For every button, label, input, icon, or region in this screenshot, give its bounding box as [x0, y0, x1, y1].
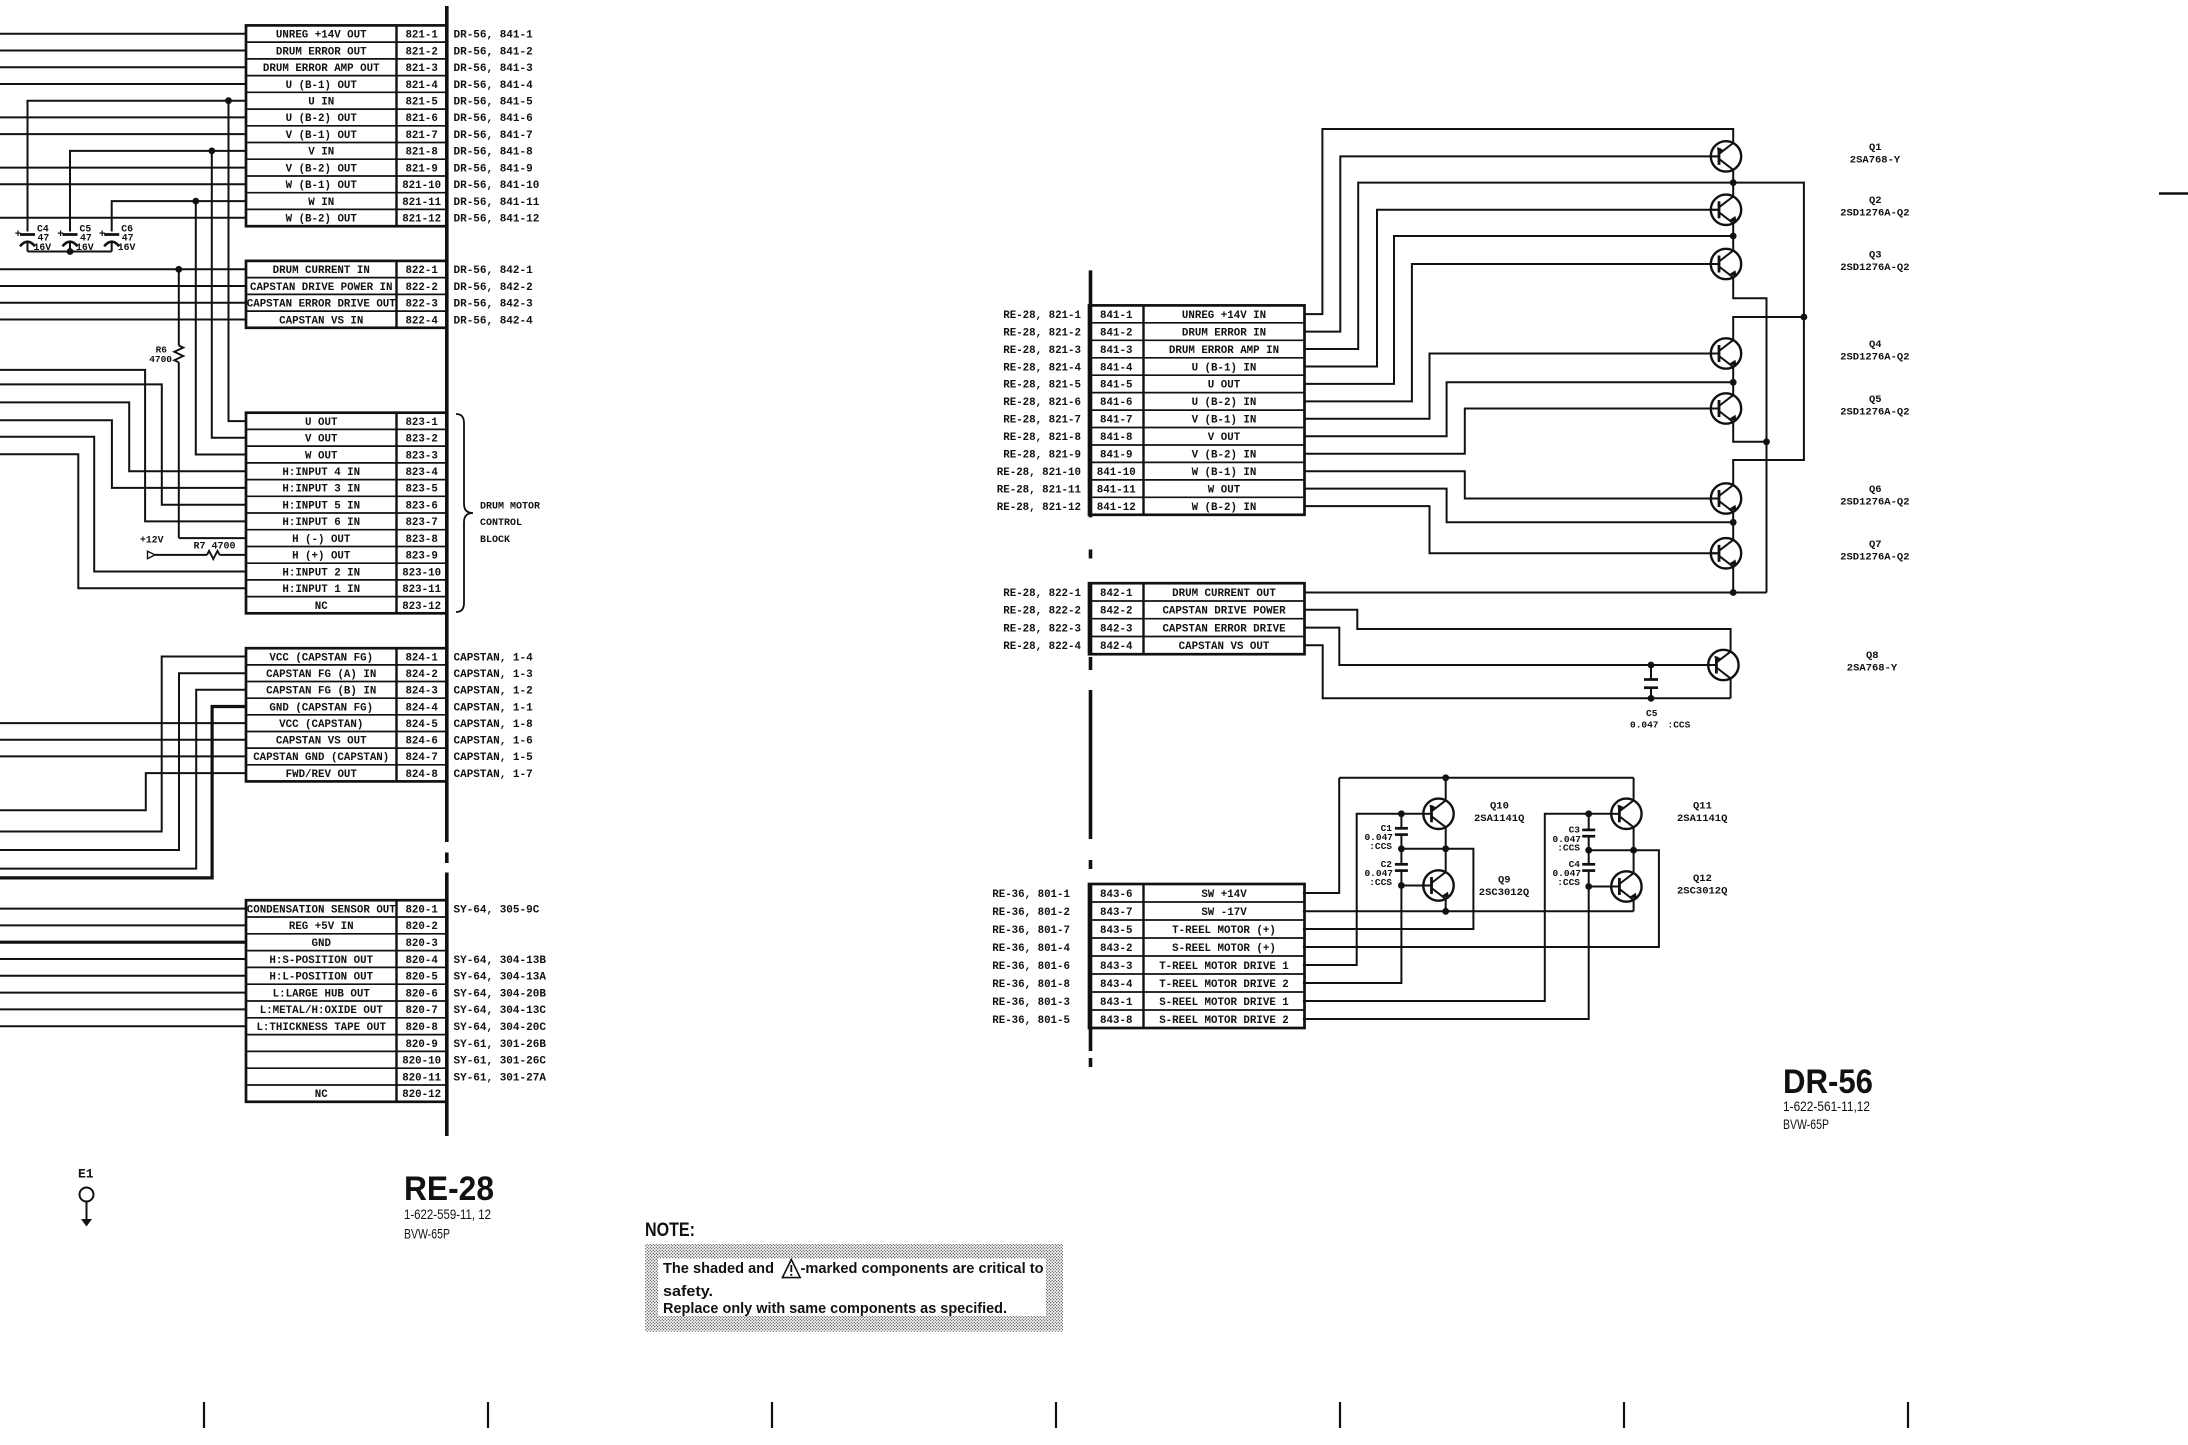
wire supply node to Q6 collector [1733, 317, 1804, 485]
capacitor C5 47uF 16V [57, 224, 94, 253]
svg-text:DR-56, 841-5: DR-56, 841-5 [454, 97, 534, 109]
wire input to 823-6 H:INPUT 5 [0, 384, 246, 504]
wire input to 820-2 [0, 924, 246, 926]
svg-text:841-4: 841-4 [1100, 362, 1133, 374]
svg-text:T-REEL MOTOR DRIVE 2: T-REEL MOTOR DRIVE 2 [1159, 979, 1289, 991]
svg-text:DR-56, 841-6: DR-56, 841-6 [454, 113, 533, 125]
wire input to 820-4 [0, 958, 246, 960]
transistor Q3 2SD1276A-Q2 [1711, 249, 1741, 280]
svg-text:820-9: 820-9 [405, 1039, 437, 1051]
svg-text:DR-56, 841-9: DR-56, 841-9 [454, 163, 533, 175]
junction Q11 base / C3 [1585, 810, 1592, 817]
svg-text:821-6: 821-6 [405, 113, 437, 125]
transistor Q9 2SC3012Q [1423, 870, 1453, 901]
RE-28 board edge line [445, 6, 449, 1136]
connector 843 (DR-56, reel) [1089, 884, 1305, 1028]
svg-text:1-622-561-11,12: 1-622-561-11,12 [1783, 1099, 1870, 1114]
svg-text:841-5: 841-5 [1100, 380, 1132, 392]
wire input to 820-6 [0, 992, 246, 994]
svg-text:824-1: 824-1 [405, 652, 438, 664]
wire S-reel drive 2 to 843-8 [1303, 887, 1589, 1020]
svg-text:2SA768-Y: 2SA768-Y [1847, 663, 1898, 675]
svg-text:SY-64, 304-13B: SY-64, 304-13B [454, 955, 547, 967]
svg-text:824-5: 824-5 [405, 719, 437, 731]
wire input to 822-1 [0, 268, 246, 270]
svg-text:823-4: 823-4 [405, 467, 438, 479]
svg-text:U (B-1) OUT: U (B-1) OUT [286, 80, 358, 92]
svg-text:823-12: 823-12 [402, 601, 441, 613]
svg-text:CAPSTAN VS IN: CAPSTAN VS IN [279, 315, 363, 327]
wire SW +14V top rail [1339, 777, 1633, 779]
wire capacitor common bus [28, 251, 112, 253]
svg-text:RE-36, 801-6: RE-36, 801-6 [992, 961, 1070, 973]
transistor Q4 2SD1276A-Q2 [1711, 338, 1741, 369]
svg-text:820-6: 820-6 [405, 988, 437, 1000]
registration tick 2 [487, 1402, 489, 1428]
svg-text:U (B-2) IN: U (B-2) IN [1192, 397, 1257, 409]
adjacent sheet wire stub [2159, 192, 2188, 195]
svg-text:DR-56, 842-2: DR-56, 842-2 [454, 282, 533, 294]
wire input to 822-2 [0, 285, 246, 287]
svg-text:824-2: 824-2 [405, 669, 437, 681]
svg-text:823-7: 823-7 [405, 517, 437, 529]
svg-text:820-1: 820-1 [405, 904, 438, 916]
node U OUT [1730, 233, 1737, 240]
svg-text:821-4: 821-4 [405, 80, 438, 92]
junction C5 top [1648, 662, 1655, 669]
svg-text:T-REEL MOTOR DRIVE 1: T-REEL MOTOR DRIVE 1 [1159, 961, 1289, 973]
wire Q4 emitter [1732, 367, 1734, 382]
svg-text:RE-28, 822-2: RE-28, 822-2 [1003, 606, 1081, 618]
svg-text:841-2: 841-2 [1100, 327, 1132, 339]
svg-text:DR-56, 841-12: DR-56, 841-12 [454, 214, 540, 226]
wire C5 / V IN to 821-8 [70, 151, 246, 232]
svg-text:821-1: 821-1 [405, 30, 438, 42]
svg-text:2SD1276A-Q2: 2SD1276A-Q2 [1840, 262, 1909, 274]
wire input to 822-4 [0, 319, 246, 321]
junction Q11 emitter / Q12 collector [1630, 847, 1637, 854]
svg-text:RE-28, 821-4: RE-28, 821-4 [1003, 362, 1081, 374]
svg-text:RE-28, 821-5: RE-28, 821-5 [1003, 380, 1081, 392]
svg-text:DRUM MOTOR: DRUM MOTOR [480, 502, 540, 513]
svg-text:RE-28, 821-12: RE-28, 821-12 [997, 502, 1081, 514]
registration tick 7 [1907, 1402, 1909, 1428]
wire 841-9 to Q5 base [1305, 409, 1720, 454]
junction Q12 base / C4 [1585, 883, 1592, 890]
svg-text:RE-36, 801-7: RE-36, 801-7 [992, 925, 1070, 937]
svg-text:841-10: 841-10 [1097, 467, 1136, 479]
capacitor C2 0.047 [1395, 849, 1408, 886]
wire Q11 collector [1633, 778, 1635, 801]
svg-text:820-8: 820-8 [405, 1022, 437, 1034]
svg-text:safety.: safety. [663, 1284, 713, 1300]
transistor Q5 2SD1276A-Q2 [1711, 393, 1741, 424]
junction C3/C4 S-reel node [1585, 847, 1592, 854]
svg-text:DRUM ERROR OUT: DRUM ERROR OUT [276, 46, 367, 58]
connector 841 (DR-56) [1089, 305, 1305, 514]
svg-text:SY-64, 304-20B: SY-64, 304-20B [454, 988, 547, 1000]
wire S-reel motor node to 843-2 [1303, 850, 1659, 947]
wire Q7 collector [1732, 522, 1734, 540]
svg-text:RE-28, 822-4: RE-28, 822-4 [1003, 641, 1081, 653]
svg-text:CAPSTAN GND (CAPSTAN): CAPSTAN GND (CAPSTAN) [253, 752, 389, 764]
svg-text:Q12: Q12 [1693, 873, 1712, 885]
svg-text:SY-64, 305-9C: SY-64, 305-9C [454, 904, 540, 916]
wire GND to 824-4 (bold) [0, 707, 246, 878]
svg-text:DR-56, 841-11: DR-56, 841-11 [454, 197, 540, 209]
svg-text:CAPSTAN DRIVE POWER IN: CAPSTAN DRIVE POWER IN [250, 282, 393, 294]
svg-text:Q4: Q4 [1869, 339, 1882, 351]
svg-text:DR-56, 841-1: DR-56, 841-1 [454, 30, 534, 42]
wire 841-12 to Q7 base [1305, 506, 1720, 553]
wire Q2 emitter [1732, 223, 1734, 236]
svg-text:823-5: 823-5 [405, 484, 437, 496]
svg-text:821-11: 821-11 [402, 197, 441, 209]
svg-text:SY-61, 301-26C: SY-61, 301-26C [454, 1056, 547, 1068]
svg-text:SY-61, 301-27A: SY-61, 301-27A [454, 1072, 547, 1084]
node W OUT [1730, 519, 1737, 526]
svg-text:H:INPUT 1 IN: H:INPUT 1 IN [282, 584, 360, 596]
svg-text:822-4: 822-4 [405, 315, 438, 327]
svg-text:H:INPUT 2 IN: H:INPUT 2 IN [282, 567, 360, 579]
wire C6 / W IN to 821-11 [112, 201, 246, 231]
wire input to 823-7 H:INPUT 6 [0, 370, 246, 522]
wire input to 821-3 [0, 66, 246, 68]
capacitor C6 47uF 16V [99, 224, 136, 253]
svg-text:821-2: 821-2 [405, 46, 437, 58]
wire input to 821-12 [0, 217, 246, 219]
svg-text:843-1: 843-1 [1100, 997, 1133, 1009]
svg-text:Q2: Q2 [1869, 195, 1882, 207]
svg-text:H (+) OUT: H (+) OUT [292, 551, 351, 563]
svg-text:822-2: 822-2 [405, 282, 437, 294]
svg-text:CAPSTAN ERROR DRIVE OUT: CAPSTAN ERROR DRIVE OUT [247, 299, 397, 311]
svg-text:RE-36, 801-8: RE-36, 801-8 [992, 979, 1070, 991]
wire U IN to 823-1 U OUT [229, 101, 247, 421]
svg-text:2SD1276A-Q2: 2SD1276A-Q2 [1840, 352, 1909, 364]
wire 841-11 W OUT node [1305, 489, 1734, 523]
junction Q9 base / C2 [1398, 882, 1405, 889]
svg-text:RE-28: RE-28 [404, 1170, 494, 1208]
connector 822 (RE-28) [246, 261, 447, 328]
transistor Q8 2SA768-Y [1708, 650, 1738, 680]
svg-text:W OUT: W OUT [305, 450, 338, 462]
wire input to 821-10 [0, 183, 246, 185]
svg-text:H:INPUT 6 IN: H:INPUT 6 IN [282, 517, 360, 529]
svg-text:841-9: 841-9 [1100, 450, 1132, 462]
svg-text:W (B-2) IN: W (B-2) IN [1192, 502, 1257, 514]
svg-text:824-4: 824-4 [405, 702, 438, 714]
svg-text:SW -17V: SW -17V [1201, 907, 1247, 919]
wire 841-6 to Q3 base [1305, 264, 1720, 401]
svg-text:H:INPUT 5 IN: H:INPUT 5 IN [282, 501, 360, 513]
svg-text:843-5: 843-5 [1100, 925, 1132, 937]
wire Q5 emitter to rail [1733, 422, 1766, 442]
resistor R6 4700 [149, 269, 246, 538]
svg-text:RE-28, 821-1: RE-28, 821-1 [1003, 310, 1081, 322]
svg-text:842-3: 842-3 [1100, 623, 1132, 635]
svg-text:823-3: 823-3 [405, 450, 437, 462]
junction supply branch [1801, 314, 1808, 321]
svg-text:16V: 16V [118, 242, 136, 253]
svg-text:841-11: 841-11 [1097, 484, 1136, 496]
svg-text:843-7: 843-7 [1100, 907, 1132, 919]
svg-text:820-7: 820-7 [405, 1005, 437, 1017]
terminal E1 [78, 1167, 94, 1227]
svg-text:RE-36, 801-3: RE-36, 801-3 [992, 997, 1070, 1009]
wire Q12 base [1589, 886, 1612, 888]
svg-text:Q10: Q10 [1490, 801, 1509, 813]
connector 820 (RE-28, sensors) [246, 900, 447, 1102]
svg-text:841-12: 841-12 [1097, 502, 1136, 514]
svg-text:2SD1276A-Q2: 2SD1276A-Q2 [1840, 552, 1909, 564]
svg-text:V IN: V IN [308, 147, 334, 159]
svg-text:S-REEL MOTOR DRIVE 2: S-REEL MOTOR DRIVE 2 [1159, 1015, 1289, 1027]
wire input to 824-8 [0, 773, 246, 810]
svg-text:H:S-POSITION OUT: H:S-POSITION OUT [269, 955, 373, 967]
capacitor C5 0.047 [1644, 665, 1658, 698]
transistor Q12 2SC3012Q [1611, 871, 1641, 902]
registration tick 5 [1339, 1402, 1341, 1428]
svg-text:842-4: 842-4 [1100, 641, 1133, 653]
svg-text:W (B-1) OUT: W (B-1) OUT [286, 180, 358, 192]
svg-text:Q11: Q11 [1693, 801, 1712, 813]
wire input to 823-4 H:INPUT 4 [0, 402, 246, 471]
wire 841-3 to drive supply node [1305, 183, 1734, 349]
svg-text:RE-28, 821-9: RE-28, 821-9 [1003, 450, 1081, 462]
wire Q10 collector [1445, 778, 1447, 801]
svg-text:CAPSTAN, 1-7: CAPSTAN, 1-7 [454, 769, 533, 781]
svg-text:+: + [15, 229, 22, 241]
wire input to 823-11 H:INPUT 1 [0, 454, 246, 588]
capacitor C1 0.047 [1395, 814, 1408, 849]
wire 841-10 to Q6 base [1305, 471, 1720, 498]
svg-text:VCC (CAPSTAN FG): VCC (CAPSTAN FG) [269, 652, 373, 664]
svg-text:C5: C5 [1646, 708, 1658, 719]
svg-text:L:THICKNESS TAPE OUT: L:THICKNESS TAPE OUT [256, 1022, 386, 1034]
svg-text:H (-) OUT: H (-) OUT [292, 534, 351, 546]
svg-text:BLOCK: BLOCK [480, 535, 510, 546]
svg-text:4700: 4700 [149, 354, 172, 365]
svg-text:DR-56, 841-10: DR-56, 841-10 [454, 180, 540, 192]
svg-text:W OUT: W OUT [1208, 484, 1241, 496]
svg-text:W (B-1) IN: W (B-1) IN [1192, 467, 1257, 479]
svg-text:CAPSTAN, 1-5: CAPSTAN, 1-5 [454, 752, 534, 764]
svg-text:Replace only with same compone: Replace only with same components as spe… [663, 1301, 1007, 1317]
wire C4 / U IN to 821-5 [28, 101, 247, 232]
svg-text:+12V: +12V [140, 535, 164, 546]
wire 842-1 drum current rail [1305, 592, 1767, 594]
svg-text:R7 4700: R7 4700 [194, 541, 236, 552]
svg-text:2SA768-Y: 2SA768-Y [1850, 155, 1901, 167]
svg-text:841-3: 841-3 [1100, 345, 1132, 357]
svg-text:CONDENSATION SENSOR OUT: CONDENSATION SENSOR OUT [247, 904, 397, 916]
node drum current junction [175, 266, 182, 273]
svg-text:H:L-POSITION OUT: H:L-POSITION OUT [269, 972, 373, 984]
svg-text:S-REEL MOTOR (+): S-REEL MOTOR (+) [1172, 943, 1276, 955]
svg-text:REG +5V IN: REG +5V IN [289, 921, 354, 933]
svg-text:843-8: 843-8 [1100, 1015, 1132, 1027]
svg-text:RE-28, 821-11: RE-28, 821-11 [997, 484, 1082, 496]
node V IN junction [208, 148, 215, 155]
wire 842-4 capstan VS line [1305, 645, 1731, 698]
svg-text:SY-61, 301-26B: SY-61, 301-26B [454, 1039, 547, 1051]
svg-text:CAPSTAN, 1-2: CAPSTAN, 1-2 [454, 686, 533, 698]
transistor Q11 2SA1141Q [1611, 799, 1641, 829]
svg-text:RE-28, 821-10: RE-28, 821-10 [997, 467, 1081, 479]
svg-text:W IN: W IN [308, 197, 334, 209]
wire input to 822-3 [0, 302, 246, 304]
svg-text:Q8: Q8 [1866, 650, 1879, 662]
wire Q7 emitter [1732, 567, 1734, 593]
svg-text:821-7: 821-7 [405, 130, 437, 142]
wire Q11 base to 843-1 [1303, 814, 1611, 1001]
DR-56 board edge line [1089, 270, 1093, 1067]
wire supply node to Q4 collector [1733, 183, 1804, 341]
svg-text:820-3: 820-3 [405, 938, 437, 950]
svg-text:DR-56, 841-8: DR-56, 841-8 [454, 147, 534, 159]
wire V IN to 823-2 V OUT [212, 151, 246, 438]
wire input to 820-5 [0, 975, 246, 977]
svg-text:U OUT: U OUT [305, 417, 338, 429]
svg-text:841-8: 841-8 [1100, 432, 1132, 444]
wire W IN to 823-3 W OUT [196, 201, 246, 454]
wire Q1 emitter [1732, 170, 1734, 183]
svg-text:DRUM CURRENT IN: DRUM CURRENT IN [273, 265, 370, 277]
junction capacitor bus [67, 248, 74, 255]
drum motor control block brace [456, 414, 473, 612]
svg-text:V (B-1) IN: V (B-1) IN [1192, 415, 1257, 427]
wire 841-7 to Q4 base [1305, 354, 1720, 419]
wire Q8 emitter [1730, 678, 1732, 698]
svg-text:2SD1276A-Q2: 2SD1276A-Q2 [1840, 208, 1909, 220]
svg-text:821-10: 821-10 [402, 180, 441, 192]
registration tick 6 [1623, 1402, 1625, 1428]
svg-text:CAPSTAN, 1-8: CAPSTAN, 1-8 [454, 719, 534, 731]
svg-text:V OUT: V OUT [305, 434, 338, 446]
svg-text:SW +14V: SW +14V [1201, 889, 1247, 901]
svg-text:RE-28, 821-8: RE-28, 821-8 [1003, 432, 1081, 444]
wire input to 824-2 [0, 673, 246, 850]
connector 823 (RE-28, drum motor) [246, 413, 447, 614]
wire input to 824-1 [0, 657, 246, 832]
wire Q3 emitter to common emitter rail [1733, 277, 1766, 592]
wire input to 820-8 [0, 1025, 246, 1027]
svg-text:824-3: 824-3 [405, 686, 437, 698]
svg-text:RE-28, 822-1: RE-28, 822-1 [1003, 588, 1081, 600]
wire SW -17V rail [1303, 910, 1634, 912]
svg-text:CAPSTAN FG (B) IN: CAPSTAN FG (B) IN [266, 686, 376, 698]
svg-text:U IN: U IN [308, 97, 334, 109]
wire input to 824-5 [0, 722, 246, 724]
svg-text:Q5: Q5 [1869, 394, 1882, 406]
wire 842-3 to Q8 base [1305, 628, 1717, 665]
svg-text:W (B-2) OUT: W (B-2) OUT [286, 214, 358, 226]
svg-text:823-1: 823-1 [405, 417, 438, 429]
svg-text:CAPSTAN, 1-6: CAPSTAN, 1-6 [454, 736, 533, 748]
svg-text::CCS: :CCS [1557, 843, 1580, 854]
svg-text:DRUM ERROR AMP OUT: DRUM ERROR AMP OUT [263, 63, 380, 75]
junction emitter rail [1763, 438, 1770, 445]
svg-text:RE-28, 821-2: RE-28, 821-2 [1003, 327, 1081, 339]
transistor Q10 2SA1141Q [1423, 799, 1453, 829]
svg-text:843-4: 843-4 [1100, 979, 1133, 991]
svg-text:820-12: 820-12 [402, 1089, 441, 1101]
junction Q10 base / C1 [1398, 810, 1405, 817]
wire Q10 emitter [1445, 827, 1447, 849]
svg-text:DR-56, 841-3: DR-56, 841-3 [454, 63, 534, 75]
svg-text:FWD/REV OUT: FWD/REV OUT [286, 769, 358, 781]
wire input to 821-1 [0, 33, 246, 35]
wire input to 823-10 H:INPUT 2 [0, 437, 246, 572]
svg-text:V (B-1) OUT: V (B-1) OUT [286, 130, 358, 142]
svg-text:RE-36, 801-5: RE-36, 801-5 [992, 1015, 1070, 1027]
registration tick 1 [203, 1402, 205, 1428]
svg-text:DR-56, 842-4: DR-56, 842-4 [454, 315, 534, 327]
svg-text:NOTE:: NOTE: [645, 1219, 695, 1241]
svg-text:Q3: Q3 [1869, 250, 1882, 262]
svg-text:CAPSTAN, 1-1: CAPSTAN, 1-1 [454, 702, 534, 714]
svg-text:U (B-2) OUT: U (B-2) OUT [286, 113, 358, 125]
svg-text:L:METAL/H:OXIDE OUT: L:METAL/H:OXIDE OUT [260, 1005, 384, 1017]
svg-text:CAPSTAN, 1-4: CAPSTAN, 1-4 [454, 652, 534, 664]
svg-text:DR-56, 841-4: DR-56, 841-4 [454, 80, 534, 92]
svg-text:NC: NC [315, 1089, 328, 1101]
svg-text:V (B-2) IN: V (B-2) IN [1192, 450, 1257, 462]
junction SW +14V / Q10 collector [1442, 774, 1449, 781]
svg-text:843-3: 843-3 [1100, 961, 1132, 973]
wire Q2 collector [1732, 183, 1734, 197]
svg-text:823-10: 823-10 [402, 567, 441, 579]
svg-text:841-7: 841-7 [1100, 415, 1132, 427]
svg-text:H:INPUT 3 IN: H:INPUT 3 IN [282, 484, 360, 496]
svg-text:DR-56, 842-3: DR-56, 842-3 [454, 299, 534, 311]
svg-text:Q6: Q6 [1869, 484, 1882, 496]
svg-text:1-622-559-11, 12: 1-622-559-11, 12 [404, 1207, 491, 1222]
wire input to 821-7 [0, 133, 246, 135]
svg-text:T-REEL MOTOR (+): T-REEL MOTOR (+) [1172, 925, 1276, 937]
transistor Q1 2SA768-Y [1711, 141, 1741, 171]
svg-text:822-1: 822-1 [405, 265, 438, 277]
svg-text:The shaded and: The shaded and [663, 1261, 774, 1277]
svg-text:H:INPUT 4 IN: H:INPUT 4 IN [282, 467, 360, 479]
wire Q9 base [1401, 885, 1423, 887]
junction C1/C2 T-reel node [1398, 845, 1405, 852]
svg-text:+: + [99, 229, 106, 241]
note shaded safety box [645, 1244, 1063, 1332]
node W IN junction [192, 198, 199, 205]
svg-text:820-10: 820-10 [402, 1056, 441, 1068]
svg-text::CCS: :CCS [1557, 877, 1580, 888]
svg-text:SY-64, 304-13C: SY-64, 304-13C [454, 1005, 547, 1017]
svg-text::CCS: :CCS [1668, 720, 1691, 731]
wire 841-4 to Q2 base [1305, 210, 1720, 367]
capacitor C4 0.047 [1582, 850, 1595, 886]
wire Q9 emitter [1445, 899, 1447, 911]
svg-text:843-6: 843-6 [1100, 889, 1132, 901]
svg-text:E1: E1 [78, 1167, 94, 1182]
wire input to 824-7 [0, 755, 246, 757]
wire Q9 collector [1445, 849, 1447, 873]
svg-text:RE-28, 821-7: RE-28, 821-7 [1003, 415, 1081, 427]
node Q1 emitter / Q2 collector [1730, 179, 1737, 186]
transistor Q6 2SD1276A-Q2 [1711, 483, 1741, 514]
capacitor C3 0.047 [1582, 814, 1595, 850]
svg-text:DRUM ERROR AMP IN: DRUM ERROR AMP IN [1169, 345, 1279, 357]
wire Q6 emitter [1732, 512, 1734, 522]
wire 843-6 SW +14V riser [1303, 778, 1339, 893]
svg-text:UNREG +14V OUT: UNREG +14V OUT [276, 30, 367, 42]
